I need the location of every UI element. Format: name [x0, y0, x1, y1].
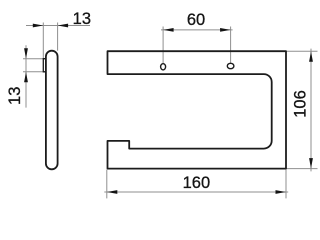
- svg-text:60: 60: [187, 11, 205, 29]
- svg-text:13: 13: [73, 10, 91, 28]
- svg-text:106: 106: [291, 90, 309, 118]
- svg-text:160: 160: [183, 174, 211, 192]
- svg-text:13: 13: [6, 87, 24, 105]
